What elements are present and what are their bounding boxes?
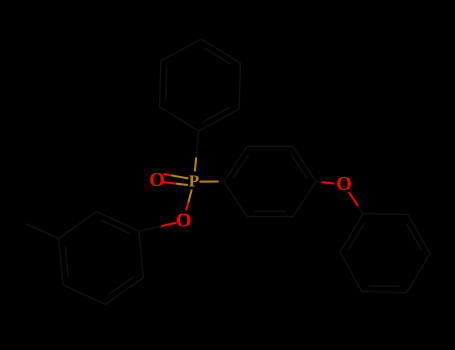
bond O(ester)-C1(aryl) [139,223,177,232]
ring (ester aryl, bottom left) [59,212,144,305]
svg-text:O: O [336,173,352,195]
bond O(ether)-C(phenoxy ring) [349,192,363,214]
benzene ring (phenoxy, bottom right) [340,214,430,293]
svg-text:P: P [189,172,199,191]
svg-text:O: O [149,169,165,191]
bond C(central ring)-O(ether) [316,182,335,184]
bond P-C(phenyl top) [195,131,199,172]
bond P-C(central ring) [200,181,225,183]
P=O double bond [163,174,188,185]
methyl substituent on ester ring [26,224,59,239]
svg-text:O: O [176,209,192,231]
benzene ring (P-phenyl, top) [160,39,241,131]
bond P-O(ester) [186,190,192,211]
benzene ring (central, P-aryl) [224,147,316,217]
